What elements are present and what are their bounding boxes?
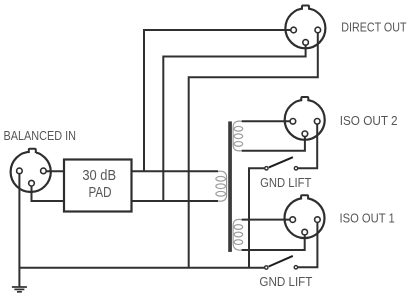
wire: pad output top to transformer primary top <box>132 170 219 172</box>
J1 pin (bottom) <box>29 180 35 186</box>
J2 pin (bottom) <box>303 40 309 46</box>
wire: input XLR pin (bottom) to pad input bottom <box>32 186 65 201</box>
label GND LIFT (upper) <box>260 176 312 190</box>
wire: direct out pin (left) to primary top node <box>144 30 291 171</box>
connector J4 ISO OUT 1 (XLR male) <box>285 195 325 238</box>
J3 pin (right) <box>314 119 320 125</box>
wire: input XLR pin (left) down to ground node <box>18 173 20 287</box>
wire: input XLR pin (right) to pad input top <box>46 170 64 172</box>
svg-text:BALANCED IN: BALANCED IN <box>4 129 77 143</box>
connector J1 BALANCED IN (XLR female) <box>11 149 51 192</box>
transformer T1 secondary winding 2 (to ISO OUT 2) <box>233 121 243 151</box>
J4 pin (right) <box>315 217 321 223</box>
value label 30 dB <box>82 168 116 184</box>
J2 pin (right) <box>315 27 321 33</box>
label GND LIFT (lower) <box>259 275 312 289</box>
svg-text:DIRECT OUT: DIRECT OUT <box>341 21 407 35</box>
transformer T1 secondary winding 1 (to ISO OUT 1) <box>233 219 243 250</box>
wire: switch SW1 left contact to ground rail <box>249 168 265 267</box>
svg-text:GND LIFT: GND LIFT <box>259 275 312 289</box>
J3 pin (left) <box>290 119 296 125</box>
ground <box>12 287 27 292</box>
svg-text:ISO OUT 1: ISO OUT 1 <box>340 212 395 226</box>
svg-text:ISO OUT 2: ISO OUT 2 <box>340 114 398 128</box>
wire: secondary 2 top to ISO OUT 2 pin (left) <box>242 120 291 122</box>
J4 pin (left) <box>290 217 296 223</box>
J1 pin (left) <box>17 168 23 174</box>
resistor network box: 30 dB PAD <box>64 160 132 212</box>
wire: ground rail along bottom to GND LIFT switch SW2 <box>19 267 264 269</box>
J3 pin (bottom) <box>302 131 308 137</box>
svg-text:GND LIFT: GND LIFT <box>260 176 312 190</box>
J2 pin (left) <box>291 27 297 33</box>
J4 pin (bottom) <box>302 229 308 235</box>
wire: ISO OUT 2 pin (bottom) to secondary 2 bottom <box>242 137 305 151</box>
label BALANCED IN <box>4 129 77 143</box>
label ISO OUT 2 <box>340 114 398 128</box>
wire: secondary 1 top to ISO OUT 1 pin (left) <box>242 219 290 221</box>
connector J2 DIRECT OUT (XLR male) <box>285 5 325 48</box>
wire: pad output bottom to transformer primary bottom <box>132 200 219 202</box>
transformer T1 core <box>228 121 232 252</box>
transformer T1 primary winding <box>216 171 227 201</box>
wire: ISO OUT 1 pin (right) down to switch SW2 right contact <box>298 222 318 267</box>
J1 pin (right) <box>41 168 47 174</box>
label DIRECT OUT <box>341 21 407 35</box>
wire: direct out pin (bottom) to primary bottom node <box>163 45 305 201</box>
svg-text:30 dB: 30 dB <box>82 168 116 184</box>
value label PAD <box>89 185 112 201</box>
switch SW1 GND LIFT (upper) <box>265 157 298 170</box>
connector J3 ISO OUT 2 (XLR male) <box>285 97 325 140</box>
wire: ISO OUT 2 pin (right) down to switch SW1 right contact <box>298 124 317 168</box>
label ISO OUT 1 <box>340 212 395 226</box>
switch SW2 GND LIFT (lower) <box>265 256 298 269</box>
svg-text:PAD: PAD <box>89 185 112 201</box>
wire: ISO OUT 1 pin (bottom) to secondary 1 bottom <box>242 235 305 250</box>
wire: direct out pin (right) to ground rail <box>189 33 318 268</box>
